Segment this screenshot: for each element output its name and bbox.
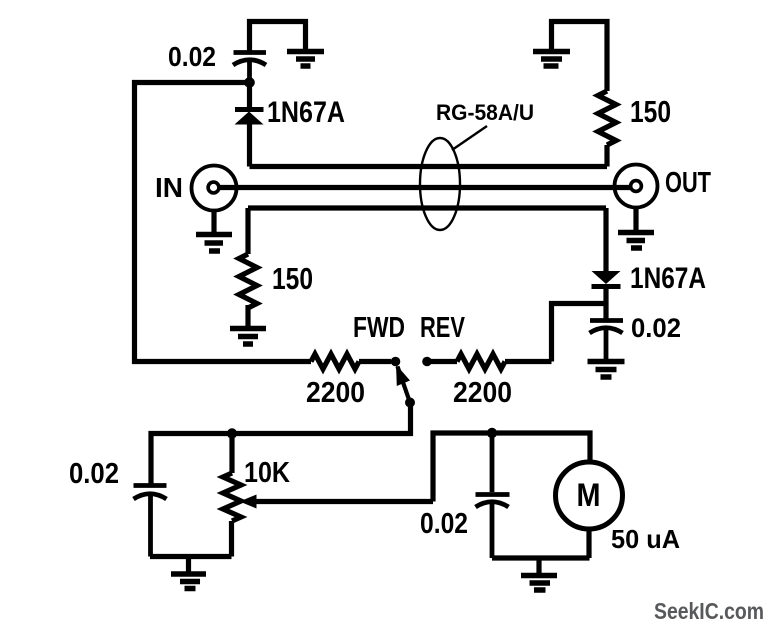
wire top-left loop [250, 22, 306, 55]
wire wiper to meter rail [433, 433, 590, 502]
ground G3 (under R1) [230, 329, 266, 345]
svg-text:150: 150 [630, 94, 671, 129]
pot wiper arrow [240, 495, 434, 509]
capacitor C1 0.02 [233, 53, 266, 83]
svg-text:IN: IN [155, 172, 183, 203]
ground under OUT [618, 208, 654, 249]
resistor R1 150 [239, 208, 257, 326]
wire left vertical to FWD row [135, 83, 312, 362]
svg-text:REV: REV [420, 312, 465, 344]
wire REV contact to R4 [427, 359, 457, 364]
resistor R3 2200 [311, 354, 391, 369]
resistor R2 150 [598, 91, 616, 167]
ground G6 (bottom-left) [171, 557, 206, 589]
capacitor C5 0.02 [476, 433, 510, 558]
svg-text:RG-58A/U: RG-58A/U [436, 100, 534, 125]
wire top rail [250, 164, 608, 169]
wire bottom-middle rail [492, 555, 590, 560]
switch FWD contact [391, 357, 401, 367]
wire branch D2 to REV resistor [552, 304, 607, 362]
switch S1 arm with arrowhead [396, 365, 415, 408]
wire top-right loop [552, 22, 608, 92]
svg-text:0.02: 0.02 [168, 41, 216, 72]
svg-text:FWD: FWD [353, 312, 405, 344]
potentiometer R5 10K [223, 434, 241, 557]
junction node (C5 top) [487, 428, 497, 438]
svg-text:50 uA: 50 uA [611, 524, 680, 554]
svg-text:10K: 10K [244, 457, 290, 489]
svg-text:OUT: OUT [665, 167, 711, 199]
diode D1 1N67A [235, 82, 264, 167]
meter M1 [556, 462, 623, 558]
junction node (pot top) [227, 428, 237, 438]
wire switch pivot to lower-left network [151, 403, 411, 485]
coax cable ellipse [420, 126, 487, 230]
wire bottom rail [248, 205, 606, 210]
svg-text:150: 150 [272, 261, 313, 296]
diode D2 1N67A [592, 271, 621, 320]
svg-text:0.02: 0.02 [69, 458, 119, 490]
ground G7 (bottom-middle) [521, 558, 557, 590]
ground G1 (top-left) [287, 52, 324, 67]
wire bottom rail to D2 [603, 208, 608, 272]
connector J2 OUT [615, 165, 658, 208]
svg-text:1N67A: 1N67A [630, 262, 706, 295]
svg-text:0.02: 0.02 [631, 313, 681, 343]
svg-text:0.02: 0.02 [420, 508, 468, 540]
capacitor C3 0.02 [134, 486, 167, 557]
svg-text:2200: 2200 [453, 377, 512, 409]
svg-text:M: M [577, 477, 601, 513]
ground G2 (top-right) [533, 52, 570, 67]
ground under IN [196, 211, 232, 252]
junction node (C1/D1/left wire) [244, 77, 255, 88]
ground G5 (under C4) [588, 362, 625, 378]
svg-text:SeekIC.com: SeekIC.com [654, 598, 764, 624]
resistor R4 2200 [457, 354, 552, 369]
svg-text:1N67A: 1N67A [267, 96, 345, 129]
connector J1 IN [192, 166, 237, 211]
capacitor C4 0.02 [590, 321, 624, 361]
switch REV contact [422, 357, 432, 367]
wire bottom-left rail [150, 554, 232, 559]
svg-text:2200: 2200 [306, 377, 365, 409]
wire coax center conductor [220, 185, 630, 190]
